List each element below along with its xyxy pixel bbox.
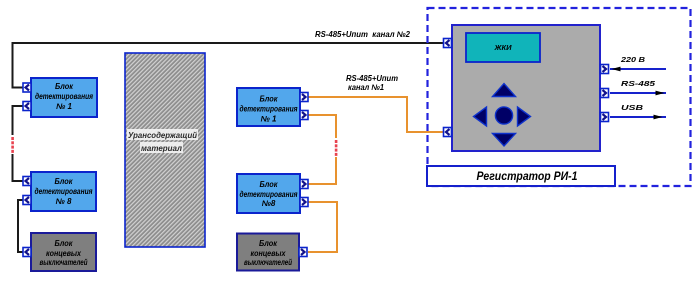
connector left box8 pin2 [23, 196, 31, 205]
junction dots break left (red) [11, 137, 14, 153]
svg-text:выключателей: выключателей [244, 258, 292, 267]
wire left box8 to limit-switch box (black) [18, 200, 26, 252]
connector middle box1 pin1 [300, 93, 308, 102]
svg-text:RS-485+Uпит канал №2: RS-485+Uпит канал №2 [315, 30, 411, 39]
nav button center [495, 107, 512, 124]
nav button left [474, 107, 487, 126]
svg-text:Блок: Блок [260, 95, 279, 104]
wire net RS-485 channel 1 (orange) [308, 97, 444, 132]
connector registrar right 220V [601, 65, 609, 74]
connector left box1 pin2 [23, 102, 31, 111]
registrar RI-1 label box [427, 166, 615, 186]
svg-text:USB: USB [621, 103, 644, 112]
connector left box1 pin1 [23, 83, 31, 92]
wire USB [610, 103, 666, 119]
connector middle box8 pin1 [300, 180, 308, 189]
block detector unit 8 (middle) [237, 174, 300, 213]
svg-text:детектирования: детектирования [240, 105, 298, 114]
wire 220V [610, 55, 666, 71]
connector left gray pin1 [23, 248, 31, 257]
svg-text:ЖКИ: ЖКИ [493, 45, 512, 52]
connector registrar right RS-485 [601, 89, 609, 98]
connector registrar right USB [601, 113, 609, 122]
wire left box1 to box8 (black, with break) [13, 106, 27, 181]
wire RS-485 [610, 79, 666, 95]
svg-text:Блок: Блок [260, 180, 279, 189]
wire middle box8 to limit-switch box (orange) [308, 202, 337, 252]
svg-text:Блок: Блок [55, 239, 74, 248]
uranium-bearing material (hatched) [125, 53, 205, 247]
block limit switches (middle, gray) [237, 234, 299, 271]
svg-text:канал №1: канал №1 [348, 83, 385, 92]
connector middle box8 pin2 [300, 198, 308, 207]
svg-text:выключателей: выключателей [40, 258, 88, 267]
block detector unit 8 (left) [31, 172, 96, 211]
svg-text:№ 1: № 1 [261, 115, 277, 124]
block detector unit 1 (middle) [237, 88, 300, 126]
registrar main unit (gray) [452, 25, 600, 151]
block detector unit 1 (left) [31, 78, 97, 117]
svg-text:RS-485+Uпит: RS-485+Uпит [346, 74, 398, 83]
svg-text:детектирования: детектирования [35, 187, 93, 196]
nav button down [493, 134, 516, 147]
connector registrar left pin2 [444, 128, 452, 137]
svg-text:220 В: 220 В [620, 55, 646, 64]
svg-text:RS-485: RS-485 [621, 79, 656, 88]
svg-text:Блок: Блок [259, 239, 278, 248]
svg-text:№ 1: № 1 [56, 102, 72, 111]
connector left box8 pin1 [23, 177, 31, 186]
svg-text:Урансодержащий: Урансодержащий [128, 131, 197, 140]
nav button right [518, 107, 531, 126]
junction dots break middle (red) [335, 140, 338, 156]
svg-text:Блок: Блок [55, 82, 74, 91]
svg-text:детектирования: детектирования [35, 92, 93, 101]
LCD display ZhKI [466, 33, 540, 62]
wire middle box1 to box8 (orange, with break) [308, 115, 336, 184]
svg-text:концевых: концевых [251, 249, 286, 258]
connector middle gray pin1 [299, 248, 307, 257]
block limit switches (left, gray) [31, 233, 96, 271]
connector registrar left pin1 [444, 39, 452, 48]
svg-text:Блок: Блок [55, 177, 74, 186]
label RS-485+Upit channel 1 [346, 74, 398, 92]
registrar RI-1 dashed enclosure [428, 8, 691, 186]
connector middle box1 pin2 [300, 111, 308, 120]
svg-text:Регистратор РИ-1: Регистратор РИ-1 [477, 169, 578, 183]
nav button up [493, 84, 516, 97]
svg-text:№ 8: № 8 [56, 197, 72, 206]
svg-text:детектирования: детектирования [240, 190, 298, 199]
svg-text:концевых: концевых [46, 249, 81, 258]
wire net RS-485 channel 2 (black, top) [13, 43, 445, 88]
svg-text:материал: материал [141, 144, 182, 153]
svg-text:№8: №8 [262, 199, 276, 208]
